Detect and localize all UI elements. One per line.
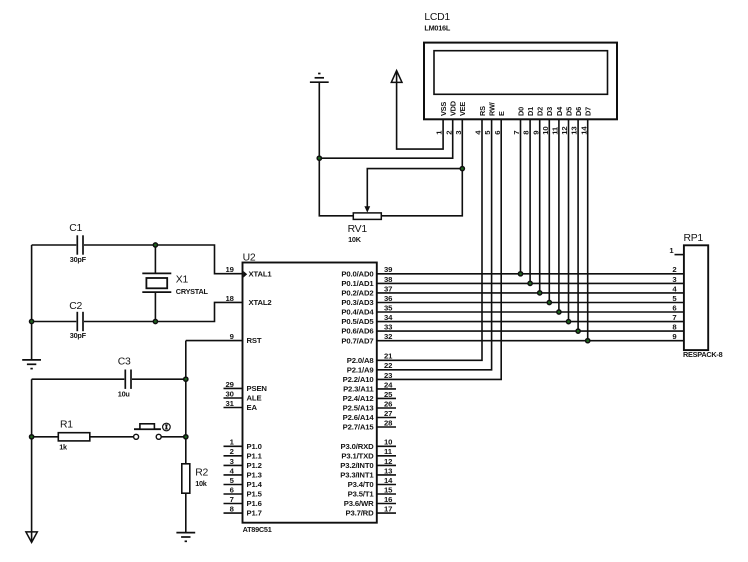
wire stub pin 15 P3.5 (377, 493, 396, 495)
wire P0.7/AD7 line to RP1 pin 9 (377, 340, 684, 342)
svg-text:C3: C3 (118, 356, 131, 367)
RP1 pin number 1 (669, 246, 674, 255)
svg-text:7: 7 (672, 313, 676, 322)
U2 pin name P2.2/A10 (343, 375, 374, 384)
wire D3 to P0.3 bus (548, 119, 550, 302)
value R1 (59, 442, 68, 451)
RP1 pin number 7 (672, 313, 676, 322)
U2 pin number 2 (230, 447, 234, 456)
LCD pin number 3 (454, 131, 463, 135)
svg-text:P2.4/A12: P2.4/A12 (343, 394, 374, 403)
svg-text:D0: D0 (516, 107, 525, 116)
RP1 pin number 8 (672, 323, 677, 332)
value LCD1 (424, 24, 450, 33)
wire D1 to P0.1 bus (529, 119, 531, 283)
LCD pin name D1 (526, 107, 535, 116)
wire stub pin 8 P1.7 (224, 512, 243, 514)
svg-text:P0.5/AD5: P0.5/AD5 (341, 317, 374, 326)
U2 pin name P2.3/A11 (343, 385, 374, 394)
node VEE junction (460, 167, 464, 171)
wire RST net: C3 row (32, 378, 125, 380)
U2 pin number 11 (384, 447, 393, 456)
push button interactive marker (163, 423, 171, 431)
wire P0.2/AD2 line to RP1 pin 4 (377, 292, 684, 294)
svg-text:13: 13 (570, 127, 579, 135)
svg-text:25: 25 (384, 390, 393, 399)
value RV1 (348, 235, 362, 244)
svg-text:P1.6: P1.6 (247, 499, 262, 508)
svg-text:12: 12 (560, 127, 569, 135)
LCD pin name D3 (545, 107, 554, 116)
LCD pin name D7 (584, 107, 593, 116)
resistor pack RP1 body (684, 245, 708, 350)
svg-text:P3.5/T1: P3.5/T1 (348, 490, 375, 499)
RP1 pin number 2 (672, 265, 676, 274)
LCD pin name D5 (564, 107, 573, 116)
U2 pin number 19 (226, 265, 234, 274)
svg-text:23: 23 (384, 371, 392, 380)
LCD pin name VEE (458, 102, 467, 116)
svg-text:17: 17 (384, 505, 392, 514)
wire C3 to RST junction (132, 378, 186, 380)
svg-text:37: 37 (384, 284, 392, 293)
svg-text:XTAL2: XTAL2 (249, 298, 272, 307)
U2 pin name P1.0 (247, 442, 262, 451)
wire D4 to P0.4 bus (558, 119, 560, 312)
svg-text:27: 27 (384, 409, 392, 418)
svg-text:7: 7 (512, 131, 521, 135)
node D7/P0.7 junction (586, 339, 590, 343)
U2 pin number 15 (384, 485, 393, 494)
svg-text:P2.1/A9: P2.1/A9 (347, 365, 374, 374)
svg-text:P0.1/AD1: P0.1/AD1 (341, 279, 374, 288)
svg-text:10u: 10u (118, 389, 130, 398)
U2 pin name P3.3/INT1 (340, 471, 374, 480)
svg-text:P1.1: P1.1 (247, 451, 263, 460)
U2 pin name RST (247, 336, 262, 345)
wire stub pin 11 P3.1 (377, 455, 396, 457)
U2 pin name P1.4 (247, 480, 263, 489)
node ground/VDD junction (317, 156, 321, 160)
svg-text:3: 3 (672, 275, 676, 284)
U2 pin number 6 (230, 485, 234, 494)
svg-text:U2: U2 (243, 253, 256, 264)
U2 pin name P2.1/A9 (347, 365, 374, 374)
wire stub pin 6 P1.5 (224, 493, 243, 495)
svg-text:7: 7 (230, 495, 234, 504)
wire P0.1/AD1 line to RP1 pin 3 (377, 282, 684, 284)
U2 pin name P3.1/TXD (341, 451, 374, 460)
svg-text:ALE: ALE (247, 394, 262, 403)
ground symbol (below R2) (176, 533, 195, 542)
U2 pin number 10 (384, 438, 392, 447)
wire RP1 pin 1 stub (675, 254, 684, 256)
U2 pin number 27 (384, 409, 392, 418)
node C1/X1 junction (153, 243, 157, 247)
U2 pin name P0.3/AD3 (341, 298, 373, 307)
wire P0.6/AD6 line to RP1 pin 8 (377, 330, 684, 332)
wire stub pin 17 P3.7 (377, 512, 396, 514)
U2 pin number 22 (384, 361, 392, 370)
U2 pin number 25 (384, 390, 393, 399)
svg-text:P2.0/A8: P2.0/A8 (347, 356, 375, 365)
wire left rail (C1 row to ground) (31, 245, 33, 359)
LCD pin name E (497, 111, 506, 116)
svg-text:D4: D4 (555, 106, 564, 116)
svg-text:2: 2 (444, 131, 453, 135)
svg-text:29: 29 (226, 380, 234, 389)
wire stub pin 27 P2.6 (377, 417, 396, 419)
U2 pin name P2.0/A8 (347, 356, 375, 365)
wire stub pin 4 P1.3 (224, 474, 243, 476)
U2 pin number 38 (384, 275, 393, 284)
U2 pin number 1 (230, 438, 235, 447)
U2 pin name P2.6/A14 (343, 413, 375, 422)
node button/R2 junction (184, 435, 188, 439)
power symbol (up arrow, VSS net) (391, 71, 402, 83)
svg-text:26: 26 (384, 399, 392, 408)
U2 pin number 39 (384, 265, 392, 274)
U2 pin number 32 (384, 332, 392, 341)
svg-text:P0.7/AD7: P0.7/AD7 (341, 336, 373, 345)
svg-text:24: 24 (384, 380, 393, 389)
wire P0.5/AD5 line to RP1 pin 7 (377, 321, 684, 323)
svg-text:2: 2 (230, 447, 234, 456)
wire RST vertical (185, 341, 187, 464)
LCD LCD1 body (424, 43, 617, 120)
wire D6 to P0.6 bus (577, 119, 579, 331)
svg-text:9: 9 (531, 131, 540, 135)
U2 pin number 26 (384, 399, 392, 408)
LCD pin name VDD (449, 100, 458, 116)
svg-text:19: 19 (226, 265, 234, 274)
U2 pin number 13 (384, 466, 392, 475)
svg-text:VSS: VSS (439, 102, 448, 116)
wire C1 net: left rail top segment (32, 244, 77, 246)
U2 pin name P1.2 (247, 461, 262, 470)
U2 pin name P0.6/AD6 (341, 327, 373, 336)
RP1 pin number 9 (672, 332, 676, 341)
value R2 (195, 479, 208, 488)
value C1 (70, 255, 87, 264)
svg-text:EA: EA (247, 403, 258, 412)
U2 pin name P1.5 (247, 490, 263, 499)
wire stub pin 10 P3.0 (377, 445, 396, 447)
label RP1 (684, 233, 704, 244)
svg-text:6: 6 (493, 131, 502, 135)
svg-text:C1: C1 (69, 223, 82, 234)
wire stub pin 30 (224, 397, 243, 399)
LCD pin name D6 (574, 107, 583, 116)
svg-text:32: 32 (384, 332, 392, 341)
label X1 (176, 275, 189, 286)
wire RS to P2.0 (377, 119, 482, 360)
U2 pin name EA (247, 403, 258, 412)
svg-text:14: 14 (384, 476, 393, 485)
svg-text:RP1: RP1 (684, 233, 704, 244)
RP1 pin number 3 (672, 275, 676, 284)
U2 pin name P0.4/AD4 (341, 308, 374, 317)
wire stub pin 25 P2.4 (377, 397, 396, 399)
U2 pin name ALE (247, 394, 262, 403)
wire stub pin 28 P2.7 (377, 426, 396, 428)
svg-text:10: 10 (541, 127, 550, 135)
wire P0.0/AD0 line to RP1 pin 2 (377, 273, 684, 275)
value C2 (70, 331, 87, 340)
svg-text:CRYSTAL: CRYSTAL (176, 287, 209, 296)
LCD pin number 4 (474, 130, 483, 135)
node D3/P0.3 junction (547, 300, 551, 304)
svg-text:P1.4: P1.4 (247, 480, 263, 489)
svg-text:P0.6/AD6: P0.6/AD6 (341, 327, 373, 336)
wire E to P2.2 (377, 119, 501, 379)
svg-text:RW/: RW/ (488, 102, 497, 116)
svg-text:6: 6 (672, 303, 676, 312)
node C2/X1 junction (153, 319, 157, 323)
LCD pin number 5 (483, 130, 492, 135)
LCD pin number 1 (435, 130, 444, 135)
LCD pin number 7 (512, 131, 521, 135)
U2 pin number 4 (230, 466, 235, 475)
capacitor C2 symbol plates (77, 312, 83, 331)
wire stub pin 3 P1.2 (224, 464, 243, 466)
svg-text:35: 35 (384, 303, 393, 312)
svg-text:RST: RST (247, 336, 262, 345)
svg-text:P3.1/TXD: P3.1/TXD (341, 451, 374, 460)
LCD pin name D0 (516, 107, 525, 116)
LCD pin name RW/ (488, 102, 497, 116)
svg-text:30pF: 30pF (70, 255, 87, 264)
svg-text:P2.2/A10: P2.2/A10 (343, 375, 374, 384)
wire VEE to RV1 right terminal (381, 169, 462, 216)
U2 pin name PSEN (247, 384, 268, 393)
svg-text:P3.2/INT0: P3.2/INT0 (340, 461, 373, 470)
LCD pin number 12 (560, 127, 569, 135)
svg-text:RS: RS (478, 106, 487, 116)
node D0/P0.0 junction (518, 272, 522, 276)
wire stub pin 14 P3.4 (377, 484, 396, 486)
wire stub pin 24 P2.3 (377, 388, 396, 390)
svg-text:11: 11 (551, 126, 560, 135)
wire stub pin 5 P1.4 (224, 484, 243, 486)
svg-text:30: 30 (226, 389, 234, 398)
svg-text:C2: C2 (69, 301, 82, 312)
ground symbol (left rail) (22, 360, 41, 369)
svg-text:2: 2 (672, 265, 676, 274)
U2 pin name P1.3 (247, 471, 262, 480)
U2 pin number 34 (384, 313, 393, 322)
svg-text:3: 3 (230, 457, 234, 466)
U2 pin number 37 (384, 284, 392, 293)
wire stub pin 1 P1.0 (224, 445, 243, 447)
U2 pin number 17 (384, 505, 392, 514)
U2 XTAL1 clock marker (243, 271, 247, 278)
svg-text:RV1: RV1 (348, 224, 368, 235)
svg-text:E: E (497, 111, 506, 116)
svg-text:39: 39 (384, 265, 392, 274)
label R1 (60, 419, 73, 430)
svg-text:11: 11 (384, 447, 393, 456)
svg-text:D6: D6 (574, 107, 583, 116)
wire VEE stub (461, 119, 463, 168)
push button actuator bar (134, 424, 161, 429)
wire X1 top stub (154, 245, 156, 274)
value U2 (243, 525, 272, 534)
ground arrow (bottom left) (26, 532, 37, 543)
U2 pin number 36 (384, 294, 392, 303)
svg-text:PSEN: PSEN (247, 384, 268, 393)
svg-text:13: 13 (384, 466, 392, 475)
node rail/R1 junction (30, 435, 34, 439)
svg-text:9: 9 (230, 332, 234, 341)
wire C2 net: C2 to XTAL2 corner (84, 302, 243, 321)
wire stub pin 16 P3.6 (377, 503, 396, 505)
ground symbol (top, inverted, VDD net) (310, 74, 329, 83)
wire rail ground2 branch down (31, 379, 33, 541)
LCD pin name D4 (555, 106, 564, 116)
svg-text:P1.3: P1.3 (247, 471, 262, 480)
U2 pin number 30 (226, 389, 234, 398)
svg-text:VDD: VDD (449, 100, 458, 116)
wire RW to P2.1 (377, 119, 492, 369)
svg-text:P3.7/RD: P3.7/RD (345, 509, 374, 518)
U2 pin number 23 (384, 371, 392, 380)
svg-text:10k: 10k (195, 479, 208, 488)
U2 pin number 29 (226, 380, 234, 389)
RP1 pin number 6 (672, 303, 676, 312)
LCD pin name RS (478, 106, 487, 116)
U2 pin name P2.7/A15 (343, 423, 375, 432)
LCD pin name D2 (536, 107, 545, 116)
wire P0.3/AD3 line to RP1 pin 5 (377, 302, 684, 304)
label RV1 (348, 224, 368, 235)
svg-text:3: 3 (454, 131, 463, 135)
U2 pin number 3 (230, 457, 234, 466)
svg-text:D1: D1 (526, 107, 535, 116)
svg-text:P2.3/A11: P2.3/A11 (343, 385, 374, 394)
U2 pin number 16 (384, 495, 392, 504)
LCD pin number 11 (551, 126, 560, 135)
U2 pin name P1.1 (247, 451, 263, 460)
wire stub pin 2 P1.1 (224, 455, 243, 457)
svg-text:P0.2/AD2: P0.2/AD2 (341, 289, 373, 298)
wire stub pin 29 (224, 387, 243, 389)
svg-text:P0.4/AD4: P0.4/AD4 (341, 308, 374, 317)
U2 pin number 7 (230, 495, 234, 504)
wire R2 to ground (185, 493, 187, 532)
svg-text:X1: X1 (176, 275, 189, 286)
wire D7 to P0.7 bus (587, 119, 589, 340)
svg-text:LCD1: LCD1 (424, 12, 450, 23)
U2 pin name P2.4/A12 (343, 394, 374, 403)
svg-text:P3.0/RXD: P3.0/RXD (341, 442, 375, 451)
wire D0 to P0.0 bus (520, 119, 522, 273)
svg-text:P0.3/AD3: P0.3/AD3 (341, 298, 373, 307)
svg-text:XTAL1: XTAL1 (249, 269, 273, 278)
wire stub pin 13 P3.3 (377, 474, 396, 476)
svg-text:33: 33 (384, 323, 392, 332)
wire P0.4/AD4 line to RP1 pin 6 (377, 311, 684, 313)
resistor R2 body (182, 464, 190, 493)
node D1/P0.1 junction (528, 281, 532, 285)
svg-text:P2.6/A14: P2.6/A14 (343, 413, 375, 422)
LCD pin number 14 (579, 126, 588, 135)
svg-text:34: 34 (384, 313, 393, 322)
svg-text:P3.3/INT1: P3.3/INT1 (340, 471, 374, 480)
U2 pin number 14 (384, 476, 393, 485)
U2 pin number 5 (230, 476, 235, 485)
wire stub pin 12 P3.2 (377, 464, 396, 466)
LCD pin number 9 (531, 131, 540, 135)
svg-text:10K: 10K (348, 235, 362, 244)
svg-text:D5: D5 (564, 107, 573, 116)
value RP1 (683, 350, 723, 359)
label LCD1 (424, 12, 450, 23)
capacitor C1 symbol plates (77, 235, 83, 254)
node D2/P0.2 junction (538, 291, 542, 295)
label C3 (118, 356, 131, 367)
U2 pin number 33 (384, 323, 392, 332)
node D4/P0.4 junction (557, 310, 561, 314)
wire R1 row left (32, 436, 59, 438)
svg-text:P2.5/A13: P2.5/A13 (343, 404, 374, 413)
push button contacts (134, 434, 162, 439)
svg-text:P2.7/A15: P2.7/A15 (343, 423, 375, 432)
svg-text:22: 22 (384, 361, 392, 370)
svg-text:28: 28 (384, 418, 393, 427)
svg-text:21: 21 (384, 352, 393, 361)
U2 pin number 9 (230, 332, 234, 341)
U2 pin name P3.2/INT0 (340, 461, 373, 470)
svg-text:1k: 1k (59, 442, 68, 451)
svg-text:31: 31 (226, 399, 235, 408)
U2 pin name P0.5/AD5 (341, 317, 374, 326)
svg-text:P1.7: P1.7 (247, 509, 262, 518)
label C1 (69, 223, 82, 234)
U2 pin number 21 (384, 352, 393, 361)
wire ground top to VDD (319, 82, 452, 158)
node D5/P0.5 junction (566, 320, 570, 324)
wire C1 net: C1 to XTAL1 corner (84, 245, 243, 274)
U2 pin name P3.0/RXD (341, 442, 375, 451)
U2 pin number 12 (384, 457, 392, 466)
wire stub pin 26 P2.5 (377, 407, 396, 409)
U2 pin name P3.5/T1 (348, 490, 375, 499)
wire ground branch to RV1 left (319, 158, 353, 216)
node D6/P0.6 junction (576, 329, 580, 333)
U2 pin name P1.7 (247, 509, 262, 518)
LCD pin number 10 (541, 127, 550, 135)
svg-text:12: 12 (384, 457, 392, 466)
U2 pin name P3.4/T0 (348, 480, 374, 489)
svg-text:P1.0: P1.0 (247, 442, 262, 451)
svg-text:P3.4/T0: P3.4/T0 (348, 480, 374, 489)
svg-text:36: 36 (384, 294, 392, 303)
LCD pin name VSS (439, 102, 448, 116)
svg-text:AT89C51: AT89C51 (243, 525, 272, 534)
svg-text:18: 18 (226, 294, 235, 303)
value X1 (176, 287, 209, 296)
svg-text:D7: D7 (584, 107, 593, 116)
svg-text:RESPACK-8: RESPACK-8 (683, 350, 723, 359)
value C3 (118, 389, 130, 398)
wire D2 to P0.2 bus (539, 119, 541, 293)
svg-text:D2: D2 (536, 107, 545, 116)
label C2 (69, 301, 82, 312)
U2 pin number 35 (384, 303, 393, 312)
svg-text:R2: R2 (195, 467, 208, 478)
svg-text:10: 10 (384, 438, 392, 447)
